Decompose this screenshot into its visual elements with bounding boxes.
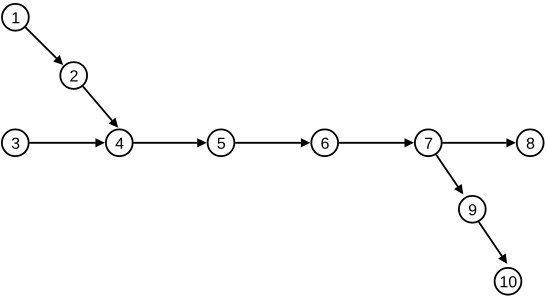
wire edge 7-9 <box>436 155 463 195</box>
wire edge 9-10 <box>479 222 507 264</box>
node 8 <box>517 129 544 156</box>
node 5 <box>208 129 235 156</box>
node 10 <box>495 268 522 295</box>
node 3 <box>2 129 29 156</box>
node 4 <box>106 129 133 156</box>
node 1 <box>2 4 29 31</box>
node 6 <box>311 129 338 156</box>
wire edge 7-8 <box>443 138 516 147</box>
node 2 <box>60 62 87 89</box>
wire edge 5-6 <box>235 138 310 147</box>
wire edge 3-4 <box>30 138 105 147</box>
wire edge 4-5 <box>134 138 207 147</box>
wire edge 2-4 <box>83 86 118 127</box>
wire edge 1-2 <box>26 27 64 65</box>
node 9 <box>459 196 486 223</box>
node 7 <box>415 129 442 156</box>
wire edge 6-7 <box>339 138 414 147</box>
